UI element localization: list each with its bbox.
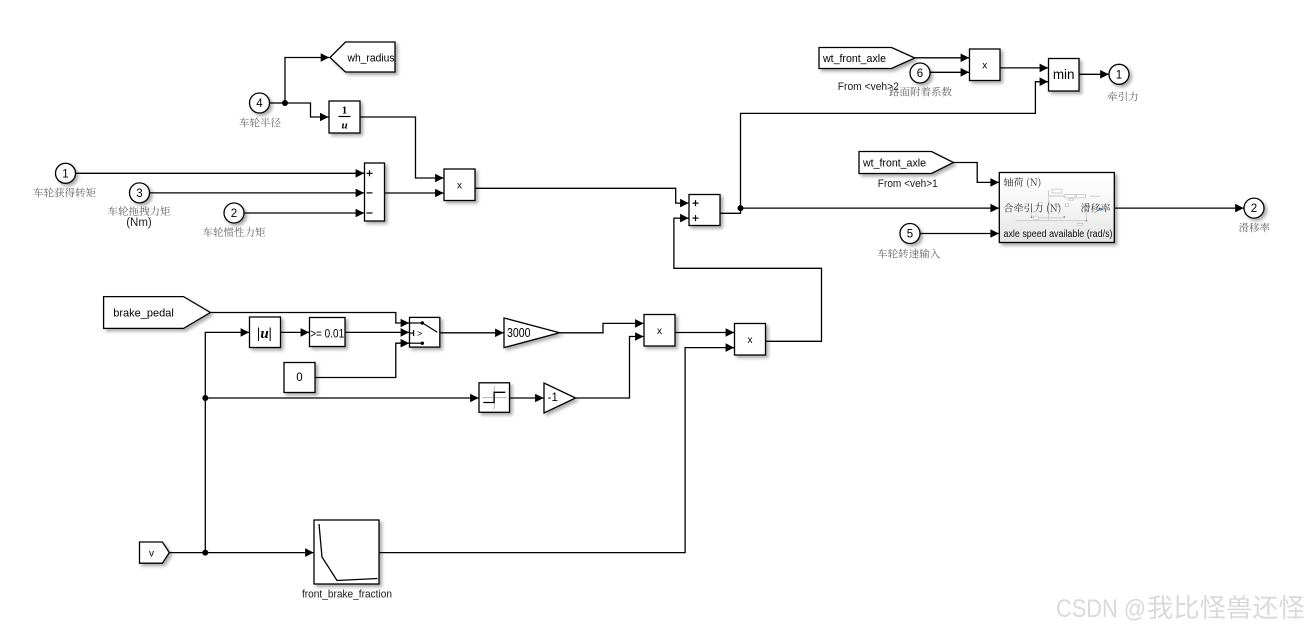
from tag wt_front_axle (veh1) bbox=[859, 152, 953, 174]
svg-text:axle speed available (rad/s): axle speed available (rad/s) bbox=[1004, 229, 1113, 240]
svg-text:wt_front_axle: wt_front_axle bbox=[822, 53, 886, 65]
outport 1 bbox=[1109, 64, 1129, 84]
sum1 signs bbox=[367, 170, 373, 213]
sign block bbox=[479, 383, 510, 413]
subsystem block 滑移率计算 bbox=[999, 173, 1114, 243]
svg-text:>= 0.01: >= 0.01 bbox=[310, 326, 344, 340]
wire inport2 to sum1 minus2 bbox=[244, 209, 364, 218]
compare block >= 0.01 bbox=[310, 318, 346, 347]
wire junction to subsystem input2 bbox=[741, 204, 999, 213]
inport 5 bbox=[900, 224, 920, 244]
sum2 signs bbox=[693, 200, 699, 221]
svg-text:x: x bbox=[982, 60, 987, 71]
label 车轮惯性力矩 bbox=[203, 227, 265, 237]
junction abs-sign branch bbox=[202, 395, 208, 401]
wire subsystem to outport2 bbox=[1115, 204, 1244, 213]
svg-text:From <veh>1: From <veh>1 bbox=[878, 178, 938, 190]
wire abs to compare bbox=[281, 328, 309, 337]
sign block icon bbox=[482, 386, 507, 409]
subsystem preview sketch bbox=[1016, 189, 1101, 225]
abs block |u| bbox=[250, 317, 281, 348]
junction port4 branch bbox=[282, 100, 288, 106]
svg-text:4: 4 bbox=[256, 98, 263, 110]
product block Product2 bbox=[644, 315, 675, 347]
svg-text:(Nm): (Nm) bbox=[126, 217, 152, 229]
svg-text:5: 5 bbox=[907, 229, 913, 241]
label 路面附着系数 bbox=[889, 87, 951, 97]
svg-text:front_brake_fraction: front_brake_fraction bbox=[302, 588, 392, 600]
svg-text:0: 0 bbox=[296, 372, 302, 384]
svg-text:u: u bbox=[341, 120, 347, 132]
inport 3 bbox=[130, 183, 150, 203]
svg-text:brake_pedal: brake_pedal bbox=[113, 307, 174, 319]
wire constant0 to switch bottom bbox=[315, 339, 409, 378]
wire sign to gain-1 bbox=[510, 394, 544, 403]
constant block 0 bbox=[284, 363, 315, 393]
from tag v bbox=[140, 542, 170, 563]
product block Product1 bbox=[444, 169, 475, 201]
subsystem output label 滑移率 bbox=[1081, 203, 1110, 212]
wire inport4 to junction bbox=[270, 102, 286, 104]
wire lookup to product4 bottom bbox=[379, 343, 734, 552]
junction sum2 output branch bbox=[738, 205, 744, 211]
min block bbox=[1049, 59, 1080, 92]
svg-text:6: 6 bbox=[917, 68, 923, 80]
label 车轮拖拽力矩 (Nm) bbox=[108, 206, 170, 216]
svg-text:|u|: |u| bbox=[257, 326, 272, 342]
sum block Add2 (+,+) bbox=[689, 195, 720, 226]
wire sum2 output stub bbox=[720, 208, 740, 213]
wire gain3000 to product2 top bbox=[560, 319, 644, 333]
inport 1 bbox=[56, 163, 76, 183]
wire junction to reciprocal 1/u bbox=[285, 103, 329, 121]
lookup curve bbox=[319, 524, 378, 581]
svg-text:wt_front_axle: wt_front_axle bbox=[862, 157, 926, 169]
wire reciprocal to product1 top bbox=[361, 117, 444, 182]
wire sum1 to product1 bottom bbox=[385, 189, 444, 198]
svg-text:3000: 3000 bbox=[507, 326, 531, 340]
gain block 3000 bbox=[504, 318, 560, 348]
product block Product4 bbox=[735, 324, 766, 356]
switch internals bbox=[410, 323, 437, 343]
svg-text:x: x bbox=[457, 181, 462, 192]
svg-text:-1: -1 bbox=[548, 392, 558, 404]
wire inport1 to sum1 plus bbox=[76, 169, 365, 178]
wire product1 to sum2 top bbox=[475, 188, 688, 207]
watermark CSDN bbox=[1056, 595, 1304, 623]
wire inport6 to product3 bottom bbox=[930, 68, 969, 77]
wire compare to switch middle bbox=[345, 328, 409, 337]
wire from v to lookup table bbox=[169, 548, 313, 557]
wire from wt_front_axle1 to subsystem input1 bbox=[953, 163, 999, 187]
sum block Add1 (+,-,-) bbox=[365, 163, 385, 221]
svg-text:x: x bbox=[657, 326, 662, 337]
svg-text:min: min bbox=[1053, 67, 1075, 82]
label 滑移率 bbox=[1239, 223, 1270, 233]
wire switch to gain3000 bbox=[440, 329, 504, 338]
wire product4 to sum2 bottom bbox=[674, 214, 822, 341]
switch block bbox=[410, 317, 440, 347]
wire brake_pedal to switch top bbox=[210, 313, 409, 328]
inport 2 bbox=[224, 203, 244, 223]
junction v branch bbox=[202, 550, 208, 556]
label 车轮转速输入 bbox=[878, 249, 940, 259]
1/u fraction text bbox=[339, 105, 351, 132]
wire junction v to abs bbox=[205, 328, 249, 552]
wire inport5 to subsystem input3 bbox=[920, 229, 999, 238]
svg-text:1: 1 bbox=[62, 168, 68, 180]
svg-text:3: 3 bbox=[136, 188, 142, 200]
subsystem port label 合牵引力 (N) bbox=[1004, 203, 1061, 214]
subsystem port label 轴荷 (N) bbox=[1004, 177, 1041, 188]
tiny blue preview arrow bbox=[1099, 207, 1103, 211]
wire from wt_front_axle2 to product3 top bbox=[915, 54, 969, 63]
wire min to outport1 bbox=[1079, 70, 1109, 79]
wire inport3 to sum1 minus1 bbox=[150, 189, 365, 198]
outport 2 bbox=[1244, 198, 1264, 218]
lookup table front_brake_fraction bbox=[314, 520, 379, 584]
from tag brake_pedal bbox=[104, 297, 211, 329]
wire junction to min bottom bbox=[741, 77, 1049, 208]
svg-text:v: v bbox=[149, 548, 154, 559]
reciprocal block 1/u bbox=[329, 101, 360, 133]
wire junction to sign block bbox=[205, 394, 478, 403]
goto tag wh_radius bbox=[330, 42, 395, 72]
svg-text:x: x bbox=[748, 335, 753, 346]
wire junction to goto wh_radius bbox=[285, 53, 329, 103]
inport 4 bbox=[250, 93, 270, 113]
label 牵引力 bbox=[1108, 91, 1138, 101]
inport 6 bbox=[910, 63, 930, 83]
svg-text:1: 1 bbox=[1116, 69, 1122, 81]
label 车轮半径 bbox=[239, 118, 280, 128]
wire product2 to product4 top bbox=[675, 328, 734, 337]
wire product3 to min top bbox=[1000, 64, 1048, 73]
svg-text:>: > bbox=[417, 329, 422, 339]
svg-text:From <veh>2: From <veh>2 bbox=[838, 81, 899, 93]
label 车轮获得转矩 bbox=[34, 188, 96, 198]
svg-text:1: 1 bbox=[342, 105, 348, 117]
gain block -1 bbox=[544, 383, 576, 413]
svg-text:2: 2 bbox=[231, 208, 237, 220]
svg-text:wh_radius: wh_radius bbox=[347, 53, 395, 65]
product block Product3 bbox=[970, 49, 1001, 81]
wire gain-1 to product2 bottom bbox=[576, 332, 644, 398]
svg-text:CSDN @: CSDN @ bbox=[1056, 595, 1146, 623]
from tag wt_front_axle (veh2) bbox=[819, 48, 915, 69]
svg-text:2: 2 bbox=[1251, 203, 1257, 215]
